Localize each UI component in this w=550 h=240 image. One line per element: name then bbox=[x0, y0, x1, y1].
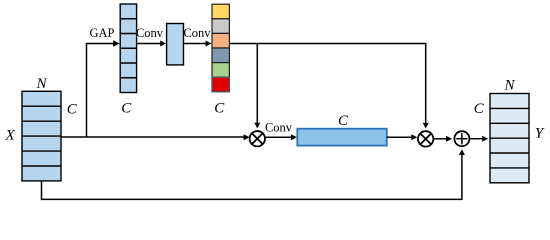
svg-text:Conv: Conv bbox=[265, 121, 293, 135]
residual wire: X bottom around to add node bbox=[42, 155, 462, 200]
svg-text:Conv: Conv bbox=[183, 26, 211, 40]
svg-text:GAP: GAP bbox=[89, 26, 114, 40]
input feature map X (6-cell stack) bbox=[22, 91, 61, 181]
svg-text:C: C bbox=[214, 101, 225, 117]
arrow: multiply node 1 to feature box C bbox=[265, 136, 292, 138]
svg-text:C: C bbox=[338, 113, 349, 129]
feature box C (long blue box) bbox=[297, 129, 387, 146]
arrow: GAP vector to conv box bbox=[137, 43, 162, 45]
wire: branch down to multiply node 1 bbox=[256, 44, 258, 125]
svg-text:N: N bbox=[35, 76, 47, 92]
svg-text:X: X bbox=[5, 128, 16, 144]
arrowhead into multiply node 1 (top) bbox=[254, 123, 260, 129]
conv squeeze box bbox=[167, 24, 184, 65]
add node (circled plus) bbox=[454, 131, 469, 146]
arrow: conv box to attention vector bbox=[184, 43, 208, 45]
wire: X output horizontal to multiply node 1 bbox=[61, 136, 245, 138]
arrow: multiply node 2 to add node bbox=[434, 138, 447, 140]
arrowhead into add node (bottom) bbox=[459, 149, 465, 155]
output feature map Y (6-cell stack) bbox=[490, 94, 529, 183]
svg-text:C: C bbox=[67, 102, 78, 118]
svg-text:N: N bbox=[503, 77, 515, 93]
arrow: add node to output Y bbox=[470, 138, 483, 140]
arrowhead into multiply node 2 (top) bbox=[423, 123, 429, 129]
svg-text:C: C bbox=[121, 101, 132, 117]
wire: attention output across top and down to multiply node 2 bbox=[229, 44, 425, 124]
wire: feature box to multiply node 2 bbox=[387, 136, 413, 138]
multiply node 2 (circled times) bbox=[418, 131, 433, 146]
wire: riser up to GAP arrow bbox=[87, 44, 115, 138]
arrowhead into multiply node 1 (left) bbox=[244, 134, 250, 140]
svg-text:C: C bbox=[474, 101, 485, 117]
multiply node 1 (circled times) bbox=[250, 131, 265, 146]
svg-text:Conv: Conv bbox=[136, 26, 164, 40]
channel attention vector (6 colored cells) bbox=[212, 4, 229, 92]
GAP output vector (6-cell stack) bbox=[120, 4, 136, 93]
arrowhead into multiply node 2 (left) bbox=[411, 134, 417, 140]
arrowhead into GAP vector bbox=[113, 40, 120, 46]
